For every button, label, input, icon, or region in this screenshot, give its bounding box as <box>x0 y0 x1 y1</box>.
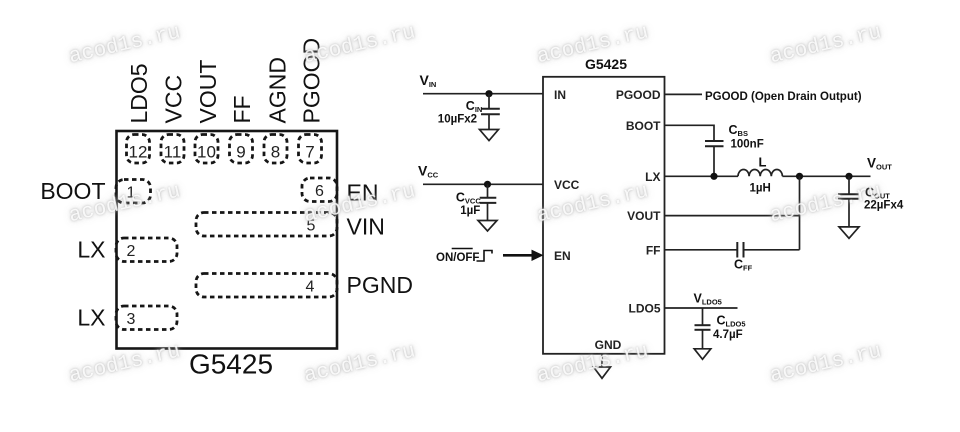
wire VCC <box>423 183 543 185</box>
ground (CLDO5) <box>694 349 711 360</box>
capacitor CLDO5 <box>702 308 704 325</box>
svg-text:FF: FF <box>646 243 661 257</box>
pin 10 <box>195 135 218 164</box>
inductor L <box>738 169 782 176</box>
wire VIN to IN <box>423 93 543 95</box>
svg-text:CBS: CBS <box>729 123 748 138</box>
ground (CVCC) <box>478 221 497 232</box>
watermark row3 col4 <box>768 339 890 388</box>
watermark row1 col3 <box>535 20 657 69</box>
svg-text:VOUT: VOUT <box>867 155 892 171</box>
watermark row1 col1 <box>67 20 189 69</box>
svg-text:7: 7 <box>305 143 314 162</box>
pin 9 <box>230 135 253 164</box>
svg-text:8: 8 <box>271 143 280 162</box>
capacitor COUT <box>848 176 850 193</box>
pin 4 <box>196 274 337 298</box>
package outline G5425 QFN <box>117 131 338 349</box>
wire LDO5 <box>665 307 738 309</box>
wire FF <box>665 249 738 251</box>
watermark row3 col1 <box>67 339 189 388</box>
watermark row2 col4 <box>768 179 890 228</box>
svg-text:1µF: 1µF <box>460 205 480 217</box>
svg-text:PGOOD (Open Drain Output): PGOOD (Open Drain Output) <box>705 91 862 103</box>
svg-text:ON/OFF: ON/OFF <box>436 252 479 264</box>
pin 12 <box>127 135 150 164</box>
svg-text:PGND: PGND <box>347 272 413 298</box>
svg-text:CLDO5: CLDO5 <box>717 313 746 328</box>
svg-text:VCC: VCC <box>554 178 580 192</box>
capacitor CIN <box>488 94 490 109</box>
svg-text:VOUT: VOUT <box>195 60 221 124</box>
capacitor CVCC <box>487 184 489 197</box>
wire BOOT <box>665 125 715 140</box>
svg-text:VOUT: VOUT <box>627 209 661 223</box>
svg-text:9: 9 <box>236 143 245 162</box>
wire LX <box>665 175 739 177</box>
svg-text:LDO5: LDO5 <box>126 63 152 123</box>
junction VCC/CVCC <box>484 181 491 188</box>
svg-text:100nF: 100nF <box>731 139 764 151</box>
svg-text:VLDO5: VLDO5 <box>694 291 722 306</box>
svg-text:VCC: VCC <box>418 163 439 180</box>
watermark row3 col2 <box>302 339 424 388</box>
pin 6 <box>302 178 337 202</box>
ground (GND) <box>594 367 611 378</box>
svg-text:EN: EN <box>554 249 571 263</box>
watermark row1 col4 <box>768 20 890 69</box>
wire L to VOUT <box>782 175 870 177</box>
svg-text:11: 11 <box>164 143 182 162</box>
IC block U1 G5425 <box>543 77 665 354</box>
watermark row2 col2 <box>302 179 424 228</box>
svg-text:2: 2 <box>127 243 136 260</box>
junction COUT node <box>845 173 852 180</box>
svg-text:LDO5: LDO5 <box>628 302 660 316</box>
svg-text:VCC: VCC <box>161 75 187 124</box>
svg-text:1µH: 1µH <box>750 182 771 194</box>
svg-text:G5425: G5425 <box>585 56 627 72</box>
arrow into EN <box>503 254 534 257</box>
svg-text:12: 12 <box>129 143 148 162</box>
svg-text:6: 6 <box>315 183 324 200</box>
pin 3 <box>116 306 177 330</box>
junction LX/CBS <box>710 173 717 180</box>
pin 5 <box>196 213 337 237</box>
ground (CIN) <box>480 130 499 141</box>
pin 1 <box>116 180 151 204</box>
svg-text:FF: FF <box>229 95 255 123</box>
capacitor CBS <box>705 140 724 142</box>
svg-text:3: 3 <box>127 311 136 328</box>
svg-text:L: L <box>759 154 767 169</box>
watermark row2 col1 <box>67 179 189 228</box>
svg-text:LX: LX <box>77 237 105 263</box>
svg-text:CIN: CIN <box>466 99 483 114</box>
wire GND <box>601 354 603 367</box>
wire VOUT pin to node <box>665 215 800 217</box>
svg-text:4: 4 <box>306 279 315 296</box>
watermark row1 col2 <box>302 20 424 69</box>
svg-text:AGND: AGND <box>265 57 291 123</box>
overline on OFF <box>452 248 473 250</box>
svg-text:LX: LX <box>77 305 105 331</box>
svg-text:G5425: G5425 <box>189 349 273 380</box>
watermark row3 col3 <box>535 339 657 388</box>
svg-text:4.7µF: 4.7µF <box>713 329 743 341</box>
svg-text:BOOT: BOOT <box>626 119 661 133</box>
pin 11 <box>161 135 184 164</box>
pin 7 <box>299 135 322 164</box>
pin 8 <box>264 135 287 164</box>
capacitor CFF <box>736 242 738 258</box>
pin 2 <box>116 238 177 262</box>
wire PGOOD <box>665 93 703 95</box>
ground (COUT) <box>839 227 859 238</box>
svg-text:VIN: VIN <box>420 72 437 89</box>
watermark row2 col3 <box>535 179 657 228</box>
junction VIN/CIN <box>485 90 492 97</box>
rising edge symbol <box>477 251 493 262</box>
svg-text:CFF: CFF <box>734 258 753 273</box>
svg-text:10: 10 <box>197 143 216 162</box>
svg-text:CVCC: CVCC <box>456 191 481 206</box>
junction VOUT node <box>796 173 803 180</box>
svg-text:PGOOD: PGOOD <box>616 88 661 102</box>
svg-text:IN: IN <box>554 88 566 102</box>
wire node vertical <box>799 176 801 250</box>
svg-text:10µFx2: 10µFx2 <box>438 113 477 125</box>
